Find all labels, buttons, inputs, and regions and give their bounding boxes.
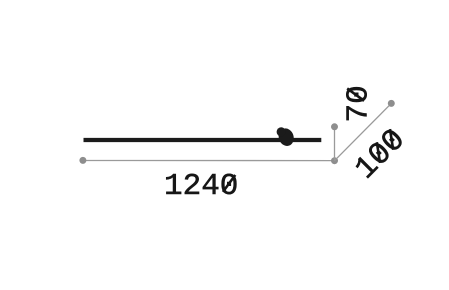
dot junction: [331, 157, 338, 164]
label 1240: [164, 169, 238, 204]
lamp rod: [84, 138, 322, 142]
lamp head blob: [276, 126, 296, 148]
dot left end: [79, 157, 86, 164]
label 70: [341, 85, 376, 122]
svg-text:70: 70: [341, 85, 376, 122]
dimension line 100 diagonal: [335, 103, 392, 160]
dot diagonal end: [388, 100, 395, 107]
dimension line 1240: [83, 160, 335, 162]
label 100: [349, 123, 413, 187]
svg-text:100: 100: [349, 123, 413, 187]
dimension line 70 vertical: [334, 127, 336, 161]
dot top of vertical: [331, 123, 338, 130]
